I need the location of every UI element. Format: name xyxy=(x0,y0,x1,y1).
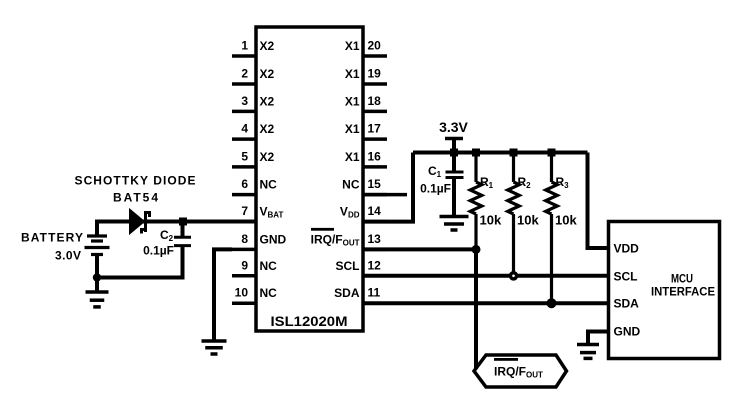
svg-text:12: 12 xyxy=(368,258,382,272)
svg-text:NC: NC xyxy=(260,286,278,300)
svg-text:X1: X1 xyxy=(345,94,360,108)
wire pin 11 SDA to MCU xyxy=(363,301,609,305)
wire battery junction down to ground xyxy=(95,278,99,292)
IC pin 8 stub xyxy=(232,248,256,252)
svg-text:11: 11 xyxy=(368,286,381,300)
svg-text:NC: NC xyxy=(342,178,360,192)
svg-text:SDA: SDA xyxy=(614,297,640,311)
svg-text:3.3V: 3.3V xyxy=(439,119,468,135)
svg-text:INTERFACE: INTERFACE xyxy=(651,285,715,299)
junction dot battery/C2/ground xyxy=(93,273,101,281)
IC pin 18 stub xyxy=(363,110,387,114)
junction dot rail at R2 xyxy=(510,149,518,157)
svg-text:GND: GND xyxy=(260,232,287,246)
battery BT1 plates xyxy=(85,236,110,255)
svg-text:1: 1 xyxy=(241,39,248,53)
wire 3.3V bar to rail xyxy=(452,139,456,153)
svg-text:GND: GND xyxy=(614,325,641,339)
svg-text:10: 10 xyxy=(235,286,249,300)
resistor R1 xyxy=(470,153,482,250)
svg-text:3: 3 xyxy=(241,94,248,108)
svg-text:X1: X1 xyxy=(345,150,360,164)
wire pin 14 VDD to 3.3V rail xyxy=(363,153,413,222)
IC pin 2 stub xyxy=(232,82,256,86)
ground below C1 xyxy=(440,217,469,231)
wire pin 13 IRQ/FOUT xyxy=(363,247,476,251)
svg-text:X2: X2 xyxy=(260,122,275,136)
wire battery top to diode anode and IC pin 7 xyxy=(97,222,256,237)
IC pin 1 stub xyxy=(232,54,256,58)
ground below battery xyxy=(86,292,109,307)
IC pin 5 stub xyxy=(232,165,256,169)
wire junction to C2 bottom xyxy=(97,247,183,278)
svg-text:SCL: SCL xyxy=(336,259,360,273)
svg-text:ISL12020M: ISL12020M xyxy=(271,314,348,329)
ground MCU xyxy=(577,345,599,359)
3.3V supply bar xyxy=(445,137,463,141)
wire pin 12 SCL to MCU xyxy=(363,274,609,278)
junction dot rail at R1 xyxy=(472,149,480,157)
svg-text:3.0V: 3.0V xyxy=(55,249,81,263)
svg-text:18: 18 xyxy=(368,94,382,108)
svg-text:SDA: SDA xyxy=(334,286,360,300)
IC pin 16 stub xyxy=(363,165,387,169)
svg-text:MCU: MCU xyxy=(671,272,693,286)
IC pin 4 stub xyxy=(232,137,256,141)
junction dot SDA/R3 xyxy=(547,298,557,308)
flag overline IRQ xyxy=(494,358,518,361)
svg-text:X2: X2 xyxy=(260,150,275,164)
svg-text:2: 2 xyxy=(241,67,248,81)
capacitor C1 plates xyxy=(446,172,464,178)
MCU INTERFACE box xyxy=(609,222,720,359)
IC pin 12 stub xyxy=(363,274,387,278)
IC pin 10 stub xyxy=(232,301,256,305)
svg-text:SCL: SCL xyxy=(614,269,638,283)
svg-text:5: 5 xyxy=(241,149,248,163)
junction dot C2/diode node xyxy=(179,218,187,226)
IC pin 13 stub xyxy=(363,248,387,252)
svg-text:6: 6 xyxy=(241,177,248,191)
svg-text:10k: 10k xyxy=(517,213,539,228)
svg-text:X2: X2 xyxy=(260,67,275,81)
pin 13 label IRQ/FOUT xyxy=(311,228,334,231)
junction dot rail at C1 xyxy=(450,149,458,157)
wire pin 15 NC stub xyxy=(363,193,407,197)
IC pin 15 stub xyxy=(363,193,387,197)
svg-text:X2: X2 xyxy=(260,94,275,108)
IC U1 ISL12020M body xyxy=(256,27,363,331)
svg-text:10k: 10k xyxy=(555,213,577,228)
IC pin 7 stub xyxy=(232,220,256,224)
IC pin 14 stub xyxy=(363,220,387,224)
svg-text:X2: X2 xyxy=(260,39,275,53)
wire battery bottom to junction xyxy=(95,255,99,278)
svg-text:BAT54: BAT54 xyxy=(113,191,158,205)
svg-text:BATTERY: BATTERY xyxy=(21,231,83,245)
svg-text:20: 20 xyxy=(368,39,382,53)
wire IRQ node down to flag xyxy=(474,249,478,369)
svg-text:15: 15 xyxy=(368,177,382,191)
resistor R2 xyxy=(508,153,520,276)
svg-text:SCHOTTKY DIODE: SCHOTTKY DIODE xyxy=(75,174,196,188)
diode D1 BAT54 triangle xyxy=(130,209,145,234)
svg-text:14: 14 xyxy=(368,204,382,218)
svg-text:17: 17 xyxy=(368,122,382,136)
junction dot IRQ/R1 xyxy=(472,245,481,254)
svg-text:X1: X1 xyxy=(345,67,360,81)
wire rail down to MCU VDD xyxy=(588,153,609,249)
IC pin 17 stub xyxy=(363,137,387,141)
IC pin 9 stub xyxy=(232,274,256,278)
svg-text:X1: X1 xyxy=(345,39,360,53)
svg-text:9: 9 xyxy=(241,258,248,272)
diode D1 schottky cathode bar xyxy=(142,211,150,234)
svg-text:NC: NC xyxy=(260,259,278,273)
resistor R3 xyxy=(546,153,558,304)
svg-text:NC: NC xyxy=(260,178,278,192)
svg-text:VDD: VDD xyxy=(614,242,640,256)
svg-text:4: 4 xyxy=(241,122,248,136)
IRQ/FOUT net flag xyxy=(474,355,567,387)
wire C1 bottom to ground xyxy=(452,178,456,217)
IC pin 11 stub xyxy=(363,301,387,305)
IC pin 20 stub xyxy=(363,54,387,58)
wire MCU GND to ground xyxy=(588,332,609,345)
ground pin 8 xyxy=(202,341,227,354)
capacitor C2 plates xyxy=(174,237,191,245)
svg-text:0.1µF: 0.1µF xyxy=(143,244,174,258)
wire pin 8 GND to ground xyxy=(214,249,232,341)
IC pin 6 stub xyxy=(232,193,256,197)
svg-text:19: 19 xyxy=(368,67,382,81)
3.3V power rail xyxy=(413,151,588,155)
svg-text:7: 7 xyxy=(241,204,248,218)
wire C2 top to node xyxy=(181,222,185,238)
svg-text:16: 16 xyxy=(368,149,382,163)
svg-text:8: 8 xyxy=(241,232,248,246)
junction SCL/R2 ring dot xyxy=(509,271,519,281)
svg-text:10k: 10k xyxy=(480,213,502,228)
wire rail to C1 top xyxy=(452,153,456,173)
svg-text:X1: X1 xyxy=(345,122,360,136)
svg-text:13: 13 xyxy=(368,232,382,246)
svg-text:0.1µF: 0.1µF xyxy=(420,182,451,196)
IC pin 19 stub xyxy=(363,82,387,86)
IC pin 3 stub xyxy=(232,110,256,114)
junction dot rail at R3 xyxy=(548,149,556,157)
